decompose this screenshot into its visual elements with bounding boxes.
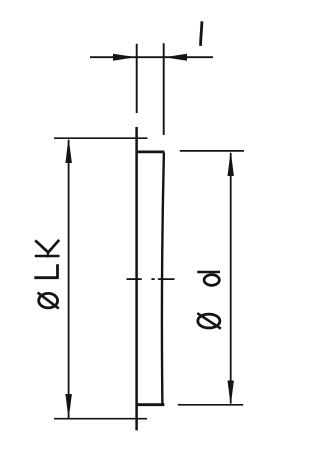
arrowhead down of OLK dimension: [65, 394, 72, 420]
dimension line Od: [230, 153, 232, 404]
part top edge: [135, 150, 164, 153]
extension line left (thickness): [136, 44, 138, 113]
label Od slash stroke: [197, 313, 221, 329]
centerline dot: [151, 278, 154, 280]
arrowhead down of Od dimension: [228, 381, 234, 406]
extension line top (diameter d): [180, 150, 244, 152]
extension line top (bolt circle LK): [54, 137, 148, 139]
part left edge: [135, 127, 138, 430]
arrowhead up of Od dimension: [228, 151, 234, 177]
arrowhead right of l dimension: [164, 54, 187, 61]
label OLK slash stroke: [38, 293, 59, 309]
extension line bottom (bolt circle LK): [54, 418, 147, 420]
arrowhead up of OLK dimension: [65, 138, 72, 163]
label Od: letter d bowl: [204, 275, 219, 286]
label Od: O slashed: [198, 314, 220, 328]
part bottom edge: [136, 403, 165, 406]
dimension line l: [90, 56, 213, 58]
label l: [201, 21, 202, 46]
extension line right (thickness): [163, 43, 165, 135]
label OLK: letter L (rotated): [34, 264, 58, 278]
label Od: letter d ascender bar (rotated): [197, 271, 220, 274]
centerline dash right: [158, 278, 175, 280]
label OLK (rotated): O slashed: [39, 293, 58, 308]
arrowhead left of l dimension: [113, 54, 136, 61]
extension line bottom (diameter d): [178, 404, 243, 406]
dimension line OLK: [68, 140, 70, 418]
centerline dash left: [127, 278, 142, 280]
part right edge: [162, 153, 164, 405]
label OLK: letter K (rotated): [35, 255, 60, 258]
